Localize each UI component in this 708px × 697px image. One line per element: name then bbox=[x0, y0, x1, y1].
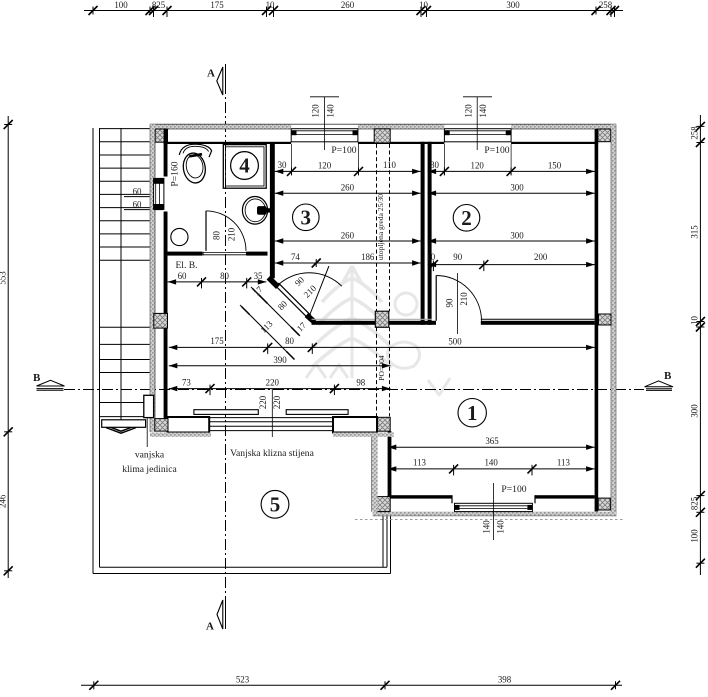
label P=100 window W2 bbox=[484, 145, 509, 156]
svg-text:4: 4 bbox=[239, 154, 250, 178]
svg-text:260: 260 bbox=[341, 0, 355, 10]
svg-text:210: 210 bbox=[459, 292, 469, 306]
bottom exterior wall (room 1) bbox=[373, 495, 617, 516]
bathroom door 80/210 labels bbox=[211, 227, 236, 241]
right exterior wall bbox=[595, 124, 616, 516]
svg-text:B: B bbox=[664, 370, 672, 382]
stair width dims 60/60 bbox=[124, 187, 163, 210]
stair direction arrow bbox=[104, 425, 138, 433]
window W4 axis and 140/140 labels bbox=[481, 483, 526, 540]
window W1 in top wall (P=100) bbox=[291, 129, 358, 142]
room 3 label bbox=[293, 204, 320, 231]
svg-text:258: 258 bbox=[599, 0, 613, 10]
label vanjska klima jedinica bbox=[122, 449, 177, 475]
svg-text:30: 30 bbox=[278, 160, 287, 170]
svg-text:utopljena greda 25/30: utopljena greda 25/30 bbox=[376, 194, 385, 260]
svg-text:258: 258 bbox=[690, 126, 700, 140]
sliding door axis and 220/220 labels bbox=[258, 389, 282, 438]
toilet bbox=[179, 144, 211, 184]
svg-text:P=160: P=160 bbox=[170, 161, 181, 186]
section marker B left bbox=[33, 372, 65, 390]
svg-text:vanjska: vanjska bbox=[135, 449, 165, 460]
room 2 dim row 300 upper bbox=[428, 183, 596, 196]
svg-text:2: 2 bbox=[461, 206, 472, 230]
svg-text:398: 398 bbox=[498, 675, 512, 685]
svg-text:A: A bbox=[206, 621, 214, 633]
sliding panel left bbox=[194, 410, 258, 415]
svg-text:246: 246 bbox=[0, 494, 8, 508]
sliding door tracks bbox=[209, 418, 333, 431]
svg-text:220: 220 bbox=[258, 395, 268, 409]
svg-text:1: 1 bbox=[467, 401, 478, 425]
PO=004 label bbox=[377, 355, 386, 381]
svg-text:140: 140 bbox=[481, 520, 491, 534]
svg-text:74: 74 bbox=[291, 252, 300, 262]
diagonal door D2 leaf (double line) bbox=[276, 283, 311, 318]
bathroom dim row 60/80/35 bbox=[168, 271, 267, 289]
section marker A top bbox=[207, 67, 223, 95]
top exterior wall bbox=[150, 124, 616, 144]
svg-text:120: 120 bbox=[311, 104, 321, 118]
svg-text:300: 300 bbox=[510, 230, 524, 240]
svg-text:90: 90 bbox=[453, 252, 462, 262]
diagonal dimension line 113/80 bbox=[240, 305, 295, 360]
bottom wall left column block bbox=[377, 497, 390, 512]
window W3 in left wall (P=160) bbox=[154, 161, 181, 209]
room 1 door D3 (90/210) leaf and swing bbox=[436, 273, 481, 334]
diagonal wall jamb lower bbox=[307, 315, 315, 322]
room 3 dim row 260 upper bbox=[275, 183, 421, 196]
shower cabin bbox=[223, 145, 266, 189]
svg-text:P=100: P=100 bbox=[501, 484, 526, 495]
terrace sliding wall left block bbox=[155, 419, 168, 432]
svg-text:260: 260 bbox=[341, 230, 355, 240]
outdoor AC unit symbol bbox=[102, 395, 154, 447]
svg-text:73: 73 bbox=[182, 377, 191, 387]
label P=100 window W1 bbox=[331, 145, 356, 156]
svg-text:300: 300 bbox=[506, 0, 520, 10]
top dimension line bbox=[84, 0, 623, 17]
svg-text:260: 260 bbox=[341, 183, 355, 193]
room1 left wall top block bbox=[378, 417, 391, 431]
section line B-B (horizontal dash-dot) bbox=[64, 389, 644, 391]
svg-text:210: 210 bbox=[226, 227, 236, 241]
window W2 axis and 120/140 labels bbox=[463, 97, 492, 150]
svg-text:140: 140 bbox=[326, 104, 336, 118]
room 1 dim row 365 bbox=[388, 436, 595, 450]
svg-text:113: 113 bbox=[557, 457, 571, 467]
room 4 label bbox=[231, 152, 259, 180]
svg-text:5: 5 bbox=[270, 492, 281, 516]
svg-text:10: 10 bbox=[426, 252, 435, 262]
svg-text:175: 175 bbox=[210, 336, 224, 346]
svg-text:315: 315 bbox=[690, 225, 700, 239]
diagonal wall jamb upper bbox=[269, 278, 279, 288]
room1 left wall (terrace right wall) bbox=[371, 427, 391, 512]
svg-text:140: 140 bbox=[478, 104, 488, 118]
svg-text:90: 90 bbox=[445, 298, 455, 307]
svg-text:El. B.: El. B. bbox=[175, 260, 197, 271]
room 2 dim row 10/90/200 bbox=[426, 252, 596, 271]
svg-text:140: 140 bbox=[484, 457, 498, 467]
svg-text:523: 523 bbox=[236, 675, 250, 685]
label Vanjska klizna stijena bbox=[230, 448, 314, 459]
svg-text:390: 390 bbox=[273, 355, 287, 365]
svg-text:P=100: P=100 bbox=[484, 145, 509, 156]
diagonal door 90/210 labels bbox=[293, 274, 319, 299]
svg-text:365: 365 bbox=[485, 436, 499, 446]
svg-text:150: 150 bbox=[548, 160, 562, 170]
svg-text:60: 60 bbox=[178, 271, 187, 281]
corridor dim row 73/220/98 bbox=[169, 377, 391, 395]
svg-text:300: 300 bbox=[690, 404, 700, 418]
svg-text:60: 60 bbox=[133, 200, 142, 210]
bathroom door D1 (80/210) leaf and swing bbox=[203, 211, 247, 256]
svg-text:825: 825 bbox=[152, 0, 166, 10]
corridor south wall (west of door D3) bbox=[312, 319, 437, 325]
svg-text:B: B bbox=[33, 372, 41, 384]
svg-text:3: 3 bbox=[301, 205, 312, 229]
svg-text:200: 200 bbox=[534, 252, 548, 262]
label El. B. bbox=[175, 260, 197, 271]
svg-text:140: 140 bbox=[496, 520, 506, 534]
corridor dim row 390 bbox=[169, 355, 391, 369]
corridor south wall (east of door D3) bbox=[481, 319, 595, 325]
washbasin bbox=[242, 197, 270, 225]
room 2 dim row 300 lower bbox=[428, 230, 596, 243]
svg-text:100: 100 bbox=[690, 529, 700, 543]
section line A-A (vertical dash-dot) bbox=[225, 64, 227, 629]
svg-text:Vanjska klizna stijena: Vanjska klizna stijena bbox=[230, 448, 314, 459]
terrace outline (room 5 boundary) bbox=[93, 515, 391, 574]
svg-text:120: 120 bbox=[318, 160, 332, 170]
roof overhang dashed line bbox=[355, 518, 623, 520]
sliding panel right bbox=[286, 410, 348, 415]
svg-text:80: 80 bbox=[211, 231, 221, 240]
svg-text:P=100: P=100 bbox=[331, 145, 356, 156]
utopljena greda 25/30 label bbox=[376, 194, 385, 260]
svg-text:825: 825 bbox=[690, 496, 700, 510]
room 3 dim row 30/120/110 bbox=[275, 144, 421, 176]
bathroom east wall bbox=[270, 144, 275, 278]
room 3 dim row 74/186 bbox=[275, 252, 421, 268]
embedded beam dashed lines (utopljena greda) bbox=[377, 144, 390, 417]
diagonal door D2 swing arc bbox=[277, 266, 342, 314]
svg-text:A: A bbox=[207, 68, 215, 80]
svg-text:120: 120 bbox=[471, 160, 485, 170]
svg-text:120: 120 bbox=[463, 104, 473, 118]
right wall bottom column block bbox=[598, 498, 610, 510]
bottom dimension line bbox=[81, 675, 622, 690]
corridor dim row 175/80/500 bbox=[169, 336, 595, 354]
svg-text:98: 98 bbox=[356, 377, 365, 387]
greda column block on corridor wall bbox=[375, 311, 389, 327]
left exterior wall bbox=[150, 124, 168, 432]
svg-text:100: 100 bbox=[114, 0, 128, 10]
svg-text:35: 35 bbox=[254, 271, 263, 281]
room 1 dim row 113/140/113 bbox=[388, 457, 595, 475]
svg-text:80: 80 bbox=[220, 271, 229, 281]
wall between rooms 2 and 3 bbox=[421, 142, 432, 325]
window W1 axis and 120/140 labels bbox=[310, 97, 339, 150]
svg-text:80: 80 bbox=[285, 336, 294, 346]
room 3 dim row 260 lower bbox=[275, 230, 421, 243]
svg-text:175: 175 bbox=[210, 0, 224, 10]
svg-text:300: 300 bbox=[510, 183, 524, 193]
svg-text:10: 10 bbox=[690, 316, 700, 325]
svg-text:220: 220 bbox=[272, 395, 282, 409]
svg-text:110: 110 bbox=[383, 160, 397, 170]
terrace sliding wall left stub bbox=[150, 417, 211, 437]
svg-text:553: 553 bbox=[0, 271, 8, 285]
room 1 door 90/210 labels bbox=[445, 292, 469, 308]
diagonal dimension line 17/80 bbox=[251, 284, 308, 336]
terrace sliding wall right stub bbox=[333, 417, 394, 437]
section marker A bottom bbox=[206, 600, 223, 633]
svg-text:113: 113 bbox=[413, 457, 427, 467]
svg-text:220: 220 bbox=[266, 377, 280, 387]
room 2 dim row 30/120/150 bbox=[428, 144, 596, 176]
left wall column block bbox=[154, 313, 168, 328]
floor drain circle bbox=[171, 228, 188, 245]
svg-text:30: 30 bbox=[430, 160, 439, 170]
svg-text:60: 60 bbox=[133, 187, 142, 197]
svg-text:10: 10 bbox=[419, 0, 428, 10]
room 5 label bbox=[261, 490, 289, 518]
svg-text:10: 10 bbox=[266, 0, 275, 10]
window W2 in top wall (P=100) bbox=[444, 129, 511, 142]
right wall mid column block bbox=[599, 314, 612, 325]
bathroom south wall left segment bbox=[167, 252, 203, 256]
top wall corner column left bbox=[155, 129, 167, 142]
room 2 label bbox=[453, 205, 480, 232]
stairs bbox=[93, 128, 150, 574]
watermark logo bbox=[306, 266, 450, 396]
top wall corner column right bbox=[598, 129, 611, 142]
bathroom south wall right segment bbox=[247, 252, 268, 256]
room 1 label bbox=[458, 399, 486, 427]
top wall beam column (greda) bbox=[374, 129, 390, 143]
svg-text:186: 186 bbox=[361, 252, 375, 262]
window W4 in bottom wall (P=100) bbox=[455, 503, 533, 511]
section marker B right bbox=[645, 370, 674, 390]
svg-text:klima jedinica: klima jedinica bbox=[122, 464, 177, 475]
svg-text:500: 500 bbox=[448, 336, 462, 346]
right dimension line bbox=[690, 115, 705, 575]
left dimension line bbox=[0, 116, 13, 578]
svg-text:PO=004: PO=004 bbox=[377, 355, 386, 381]
